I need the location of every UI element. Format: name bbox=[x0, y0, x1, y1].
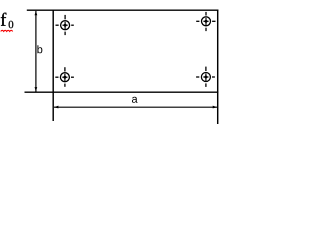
dimension line b (vertical, with arrowheads) bbox=[35, 11, 38, 92]
plate right edge (extended down as extension line for dimension a) bbox=[217, 10, 219, 125]
label a bbox=[132, 97, 138, 103]
plate bottom edge (with left extension for dimension b) bbox=[25, 91, 219, 93]
hole bottom-left (center mark with circle) bbox=[55, 67, 74, 87]
hole top-left (center mark with circle) bbox=[56, 15, 74, 35]
spellcheck squiggle under f0 bbox=[1, 30, 13, 31]
dimension line a (horizontal, with arrowheads) bbox=[54, 106, 217, 109]
plate left edge (extended down as extension line for dimension a) bbox=[52, 10, 54, 122]
hole top-right (center mark with circle) bbox=[196, 12, 215, 31]
hole bottom-right (center mark with circle) bbox=[196, 67, 215, 87]
plate top edge (with left extension for dimension b) bbox=[27, 9, 219, 11]
label f0 (variable name with subscript) bbox=[1, 13, 14, 29]
label b bbox=[37, 45, 42, 53]
